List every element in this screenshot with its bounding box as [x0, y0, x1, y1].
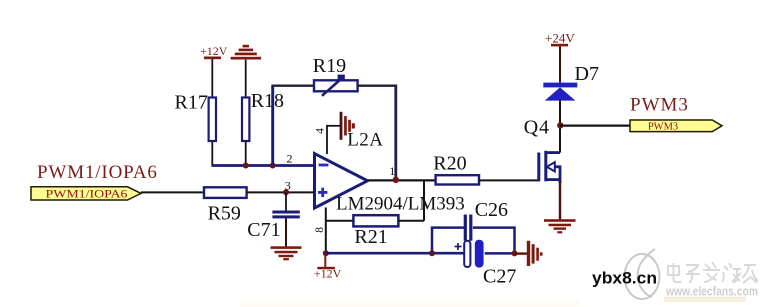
power +12V bottom	[314, 250, 342, 280]
resistor R20	[433, 153, 479, 185]
watermark logo circle	[625, 249, 660, 299]
wire R20 to Q4 gate	[479, 179, 539, 181]
diode D7	[543, 63, 599, 126]
svg-text:PWM3: PWM3	[630, 95, 689, 116]
svg-text:R18: R18	[251, 90, 284, 112]
svg-text:PWM1/IOPA6: PWM1/IOPA6	[46, 189, 128, 201]
node C71 junction	[283, 189, 289, 195]
svg-text:Q4: Q4	[524, 117, 550, 139]
svg-text:www.elecfans.com: www.elecfans.com	[665, 285, 758, 299]
wire bottom bus	[326, 252, 464, 255]
wire feedback left vertical	[271, 86, 274, 166]
ground right of C27 (right-pointing bars)	[515, 241, 543, 266]
power +24V	[545, 31, 575, 83]
transistor Q4 (N-MOSFET)	[524, 117, 560, 184]
svg-text:LM2904/LM393: LM2904/LM393	[336, 194, 465, 215]
svg-text:+12V: +12V	[314, 266, 342, 280]
pin 8 wire	[325, 208, 327, 254]
svg-text:R19: R19	[313, 55, 346, 77]
wire C26 branch loop	[432, 228, 515, 254]
resistor R21	[326, 215, 424, 248]
ground under C71	[271, 246, 302, 260]
ground under Q4	[544, 219, 576, 233]
wire op-amp output	[368, 179, 436, 181]
watermark chinese characters	[668, 262, 758, 283]
pin 4 wire	[326, 126, 340, 154]
flag PWM3	[630, 95, 722, 133]
svg-text:+24V: +24V	[545, 31, 575, 46]
wire pin2 bus	[211, 164, 314, 167]
capacitor C26	[464, 199, 508, 241]
svg-text:C71: C71	[247, 219, 280, 241]
wire node to PWM3 flag	[560, 124, 630, 126]
ground (up-pointing pyramid power port)	[231, 45, 262, 98]
wire R59 to op-amp pin3	[247, 191, 314, 193]
resistor R19 (trimmer)	[313, 55, 358, 96]
power +12V top	[200, 44, 228, 98]
power port L2A (right-pointing bars)	[340, 112, 355, 140]
wire flag to R59	[141, 191, 204, 193]
svg-text:4: 4	[313, 128, 327, 134]
node R18/bus junction	[243, 163, 249, 169]
resistor R18	[242, 90, 284, 165]
node D7/Q4/PWM3 junction	[557, 122, 563, 128]
svg-text:R20: R20	[433, 153, 466, 175]
wire R21 right vertical to output	[423, 180, 425, 220]
svg-text:2: 2	[287, 152, 293, 166]
svg-text:D7: D7	[575, 63, 599, 85]
svg-text:PWM1/IOPA6: PWM1/IOPA6	[37, 162, 158, 183]
svg-text:PWM3: PWM3	[648, 122, 678, 133]
wire Q4 source down	[559, 181, 561, 219]
resistor R59	[204, 187, 247, 224]
resistor R17	[175, 91, 217, 165]
svg-text:ybx8.cn: ybx8.cn	[592, 269, 657, 288]
decorative strip	[664, 297, 746, 303]
node C26/C27 right junction	[512, 250, 518, 256]
node bus/C26 branch junction	[429, 250, 435, 256]
node output/feedback junction	[393, 177, 399, 183]
svg-text:L2A: L2A	[347, 130, 383, 151]
svg-text:R59: R59	[208, 203, 241, 225]
faint bottom strip	[240, 301, 580, 307]
capacitor C71	[247, 192, 299, 246]
svg-text:C27: C27	[483, 266, 516, 288]
svg-text:R21: R21	[354, 226, 387, 248]
svg-text:R17: R17	[175, 91, 208, 113]
node feedback/bus junction	[270, 163, 276, 169]
capacitor C27 (polarized)	[455, 240, 517, 288]
svg-text:+12V: +12V	[200, 44, 228, 58]
wire feedback right vertical	[394, 85, 397, 180]
svg-text:1: 1	[389, 164, 395, 178]
flag PWM1/IOPA6	[31, 162, 158, 201]
wire Q4 drain up to node	[559, 126, 561, 153]
wire feedback top right segment	[358, 84, 396, 86]
op-amp U LM2904/LM393	[315, 154, 465, 215]
svg-text:8: 8	[314, 227, 326, 233]
wire feedback top left segment	[271, 84, 314, 86]
svg-text:C26: C26	[475, 199, 508, 221]
